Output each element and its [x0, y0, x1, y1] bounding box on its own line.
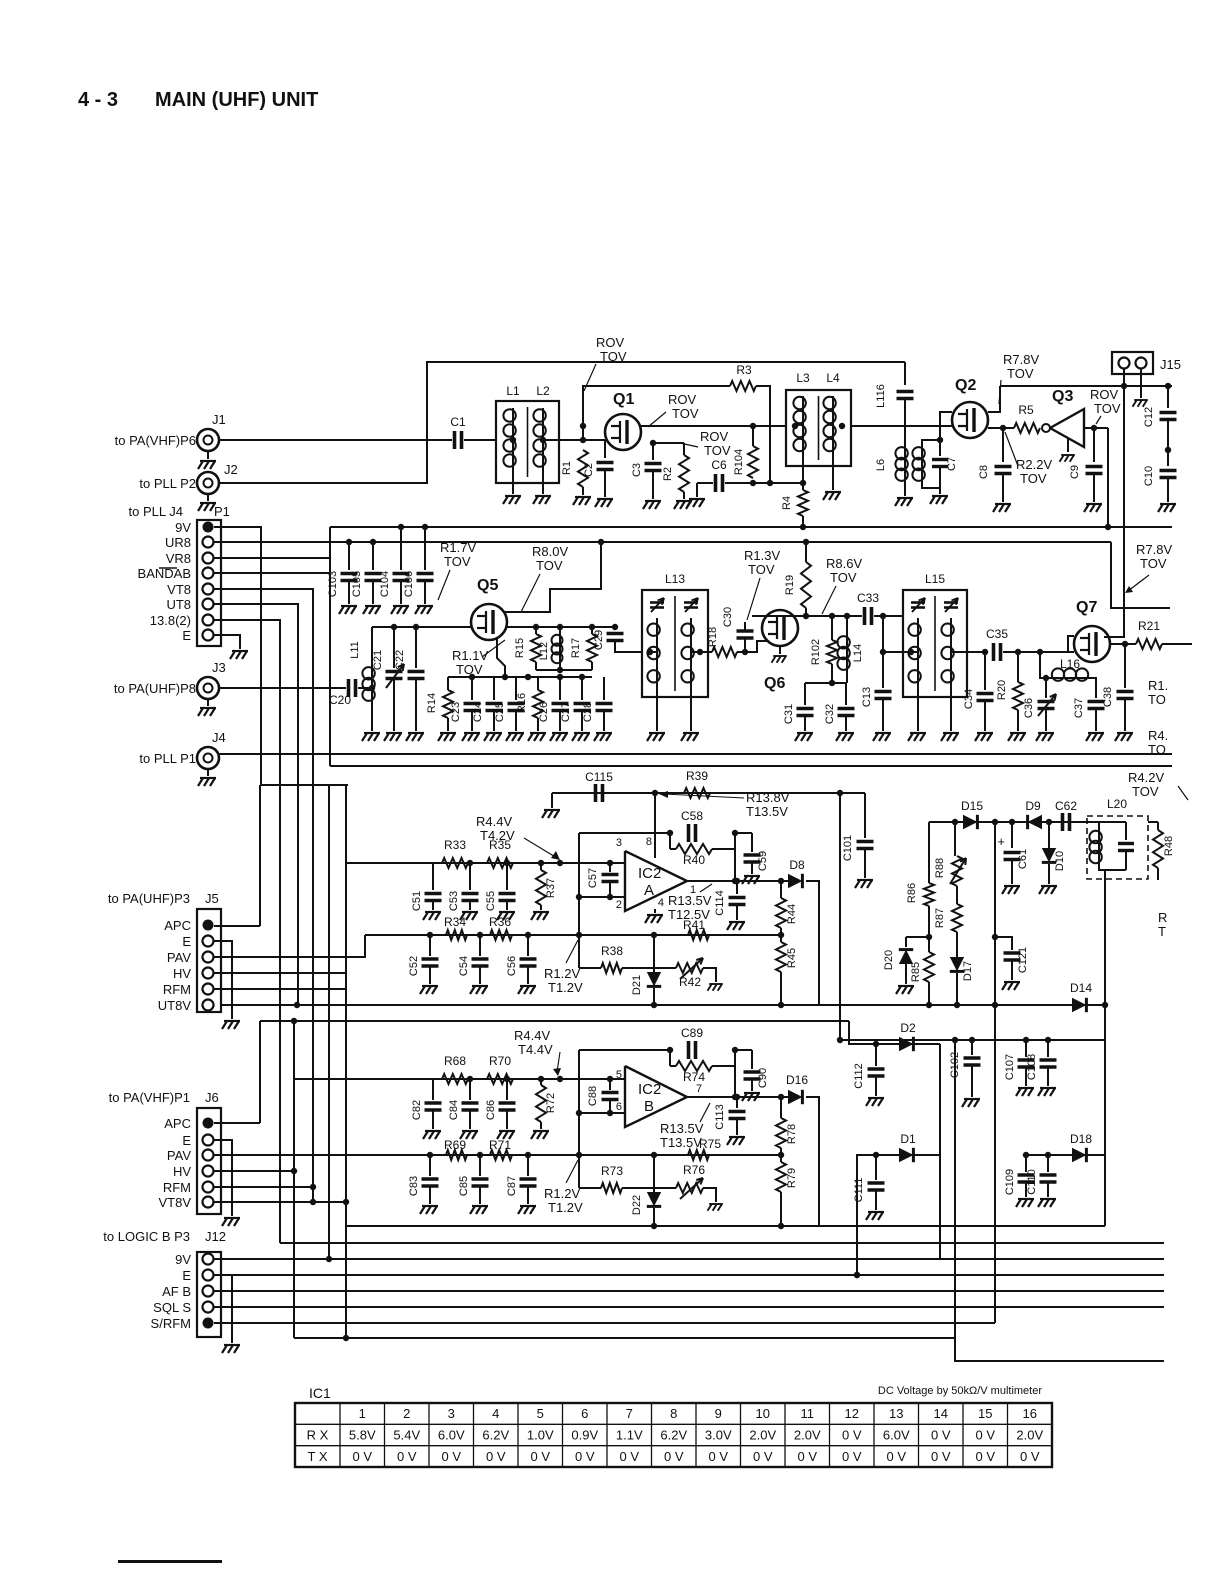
junction C27 top [579, 674, 585, 680]
ground C112 [866, 1098, 884, 1106]
svg-text:C115: C115 [585, 770, 613, 784]
svg-text:D15: D15 [961, 799, 983, 813]
wire L13a ground [656, 688, 658, 731]
wire L15a ground [917, 688, 919, 731]
svg-text:C52: C52 [408, 956, 420, 976]
op-amp IC2 B [625, 1066, 687, 1127]
wire R40 left [670, 848, 676, 850]
wire L6b top [922, 440, 940, 448]
svg-text:D21: D21 [631, 975, 643, 995]
svg-text:R70: R70 [489, 1054, 511, 1068]
ground C54 [470, 986, 488, 994]
wire APC J5 to stage3 [214, 925, 260, 927]
svg-text:R4.2V: R4.2V [1128, 770, 1164, 785]
capacitor C87 [527, 1155, 529, 1176]
callout R1.2V stage3 [566, 940, 578, 963]
svg-text:2: 2 [616, 899, 622, 911]
wire L4 to Q2 [851, 425, 952, 427]
pin J6 E [203, 1135, 214, 1146]
svg-text:C12: C12 [1143, 407, 1155, 427]
wire pin6 riser [578, 1050, 580, 1188]
ground J2 [198, 503, 216, 511]
svg-text:D2: D2 [900, 1021, 916, 1035]
svg-text:Q7: Q7 [1076, 599, 1097, 616]
bus BANDAB from P1 [214, 572, 330, 574]
junction L1 input [510, 437, 516, 443]
junction R104 bottom [750, 480, 756, 486]
svg-text:6.0V: 6.0V [883, 1428, 910, 1443]
callout R8.0V [521, 574, 540, 612]
callout R7.8V Q7 [1128, 575, 1149, 591]
junction Q1 top node [580, 423, 586, 429]
junction bus294 top [291, 1018, 297, 1024]
svg-text:UT8V: UT8V [158, 998, 192, 1013]
svg-text:C13: C13 [861, 687, 873, 707]
transformer L15 [903, 590, 967, 697]
svg-text:to PLL P2: to PLL P2 [139, 476, 196, 491]
capacitor C12 [1167, 386, 1169, 408]
bus UT8 from P1 down [214, 604, 298, 1005]
svg-text:R13.8V: R13.8V [746, 790, 790, 805]
junction C12 top [1165, 383, 1171, 389]
coil L2 [533, 408, 545, 468]
coil L14 [846, 616, 848, 637]
svg-text:T1.2V: T1.2V [548, 980, 583, 995]
ground C115 [542, 810, 560, 818]
svg-text:4: 4 [658, 897, 664, 909]
svg-text:E: E [182, 934, 191, 949]
wire C9 to ground [1093, 474, 1095, 502]
svg-text:R40: R40 [683, 853, 705, 867]
pin P1 VR8 [203, 553, 214, 564]
capacitor C31 body [797, 709, 814, 716]
pin J5 E [203, 936, 214, 947]
diode D16 [788, 1090, 802, 1104]
wire C112 D2 line [849, 1021, 940, 1044]
wire S/RFM riser to UT8V line [994, 1005, 996, 1323]
wire Q6 source stub [779, 646, 781, 654]
wire C2 top [604, 440, 606, 458]
bus line E logic [214, 1274, 1164, 1276]
svg-text:R16: R16 [516, 693, 528, 713]
junction C22 [413, 624, 419, 630]
junction C114 top [734, 878, 740, 884]
svg-text:R4.4V: R4.4V [476, 814, 512, 829]
wire C35 to Q7 [1003, 651, 1074, 653]
wire RFM J6 [214, 1186, 313, 1188]
trimmer resistor R76 [654, 1187, 676, 1189]
svg-text:5.4V: 5.4V [393, 1428, 420, 1443]
junction C30 [742, 649, 748, 655]
bus line SQLS [214, 1306, 1164, 1308]
svg-text:2.0V: 2.0V [1016, 1428, 1043, 1443]
junction C106 top [422, 524, 428, 530]
ground J1 [198, 461, 216, 469]
junction Q5 drain rail [598, 539, 604, 545]
transformer L1 L2 [496, 401, 559, 483]
wire C3 to ground [652, 471, 654, 499]
ground C52 [420, 986, 438, 994]
junction C111 top [873, 1152, 879, 1158]
capacitor C85 [479, 1155, 481, 1176]
capacitor C3 [645, 464, 662, 471]
svg-text:RFM: RFM [163, 982, 191, 997]
svg-text:C28: C28 [582, 702, 594, 722]
ground C53 [460, 912, 478, 920]
connector J12 [197, 1252, 221, 1337]
svg-text:APC: APC [164, 1116, 191, 1131]
wire Q2 source to R5 [988, 427, 1014, 429]
svg-text:C111: C111 [853, 1178, 865, 1203]
capacitor C88 [609, 1079, 611, 1090]
wire L3 to node [802, 452, 804, 483]
resistor R35 [487, 858, 513, 868]
svg-text:R45: R45 [786, 948, 798, 968]
electrolytic C61 [1011, 822, 1013, 848]
wire pin2 stub [579, 896, 625, 898]
triangle Q3 [1050, 409, 1084, 447]
svg-text:DC Voltage by 50kΩ/V multimete: DC Voltage by 50kΩ/V multimeter [878, 1385, 1042, 1397]
junction VT8V col346 [343, 1199, 349, 1205]
wire R1 to ground [582, 487, 584, 495]
pin J6 RFM [203, 1182, 214, 1193]
callout R4.4V [524, 838, 557, 858]
svg-text:TOV: TOV [1140, 556, 1167, 571]
svg-text:R2.2V: R2.2V [1016, 457, 1052, 472]
svg-text:L15: L15 [925, 572, 945, 586]
diode D22 [653, 1155, 655, 1194]
ground L13a [647, 733, 665, 741]
svg-text:TOV: TOV [456, 662, 483, 677]
capacitor C29 body [607, 634, 624, 641]
junction feedback right [732, 830, 738, 836]
resistor R69 [446, 1150, 467, 1160]
svg-text:L116: L116 [875, 384, 887, 408]
capacitor C111 body [868, 1183, 885, 1190]
ground C3 [643, 501, 661, 509]
wire Q5 output node [505, 626, 615, 628]
svg-text:C88: C88 [587, 1086, 599, 1106]
capacitor C61 body [1004, 853, 1021, 860]
capacitor C7 [939, 440, 941, 456]
ground C27 [572, 733, 590, 741]
ground J3 [198, 708, 216, 716]
svg-text:1.0V: 1.0V [527, 1428, 554, 1443]
junction R20 top [1015, 649, 1021, 655]
capacitor C59 [735, 832, 752, 834]
wire HV J5 [214, 972, 346, 974]
resistor R86 [928, 858, 930, 883]
junction R45 bottom [778, 1002, 784, 1008]
junction C86 top [504, 1076, 510, 1082]
svg-text:6: 6 [581, 1406, 588, 1421]
wire RFM J5 [214, 988, 346, 990]
svg-text:L13: L13 [665, 572, 685, 586]
svg-text:R42: R42 [679, 975, 701, 989]
resistor R79 [780, 1155, 782, 1162]
ground C28 [594, 733, 612, 741]
svg-text:R21: R21 [1138, 619, 1160, 633]
svg-text:VT8: VT8 [167, 582, 191, 597]
capacitor C53 [469, 863, 471, 890]
svg-text:C8: C8 [978, 465, 990, 479]
svg-text:7: 7 [626, 1406, 633, 1421]
junction R3 bottom [767, 480, 773, 486]
svg-text:R35: R35 [489, 838, 511, 852]
wire L116 down to L6 [904, 399, 906, 448]
ground J4 [198, 778, 216, 786]
wire R39 node down to stage4 [839, 793, 841, 1040]
svg-text:P1: P1 [214, 504, 230, 519]
svg-text:12: 12 [845, 1406, 859, 1421]
pin P1 E [203, 630, 214, 641]
capacitor C6 [716, 474, 723, 492]
pin J12 AFB [203, 1286, 214, 1297]
svg-text:R4: R4 [781, 496, 793, 510]
capacitor C55 [506, 863, 508, 890]
svg-text:E: E [182, 1133, 191, 1148]
junction R2.2V node [1000, 425, 1006, 431]
svg-text:C51: C51 [411, 891, 423, 911]
svg-text:C59: C59 [757, 851, 769, 871]
capacitor C20 [349, 679, 356, 697]
svg-text:C3: C3 [631, 463, 643, 477]
svg-text:C61: C61 [1017, 849, 1029, 869]
svg-text:9V: 9V [175, 1252, 191, 1267]
callout R1.3V [747, 578, 760, 620]
resistor R17 [591, 627, 593, 634]
jack J1 [197, 429, 219, 451]
coil L3 [793, 396, 805, 452]
svg-text:SQL S: SQL S [153, 1300, 191, 1315]
callout R4.2V [1178, 786, 1188, 800]
junction C85 top [477, 1152, 483, 1158]
junction L4 rail [839, 423, 845, 429]
bus APC J5 riser [259, 785, 261, 926]
ground J15 [1133, 400, 1148, 407]
junction C107 top [1023, 1037, 1029, 1043]
svg-text:TOV: TOV [1007, 366, 1034, 381]
ground C86 [497, 1131, 515, 1139]
pin J12 SQLS [203, 1302, 214, 1313]
svg-text:C106: C106 [403, 571, 415, 597]
resistor R70 [487, 1074, 513, 1084]
capacitor C27 [581, 677, 583, 700]
svg-text:2.0V: 2.0V [794, 1428, 821, 1443]
trimmer capacitor C21 [393, 627, 395, 668]
resistor R36 [490, 930, 512, 940]
svg-text:C2: C2 [583, 463, 595, 477]
wire J4 ground stub [207, 769, 209, 776]
ground C104 [391, 606, 409, 614]
wire J2 top loop [219, 362, 902, 483]
ground C103 [339, 606, 357, 614]
capacitor C57 [609, 863, 611, 872]
svg-text:T: T [1158, 924, 1166, 939]
bus line 1361 wrap [955, 1338, 1164, 1361]
wire APC J6 riser [259, 1021, 261, 1123]
svg-text:+: + [997, 834, 1005, 849]
wire Q6 drain node [752, 615, 862, 617]
junction C108 top [1045, 1037, 1051, 1043]
svg-text:R102: R102 [810, 639, 822, 665]
bus column 329 [328, 785, 330, 1259]
wire L11 to ground [371, 700, 373, 731]
wire Q7 drain up [1104, 386, 1124, 637]
svg-text:11: 11 [801, 1406, 815, 1421]
wire D1 riser [857, 1155, 876, 1275]
svg-text:0 V: 0 V [931, 1428, 951, 1443]
junction L13a tap [647, 649, 653, 655]
wire stage4 bottom node [346, 1225, 1105, 1227]
svg-text:TOV: TOV [1094, 401, 1121, 416]
wire L15b ground [950, 688, 952, 731]
bus column 346 [345, 785, 347, 1338]
svg-text:L3: L3 [796, 371, 810, 385]
svg-text:C104: C104 [379, 571, 391, 597]
wire C1 to L1 box [464, 439, 496, 441]
trimmer cap L13b [684, 603, 698, 608]
svg-text:R19: R19 [784, 575, 796, 595]
wire D1 line [876, 1154, 940, 1156]
svg-text:C110: C110 [1026, 1169, 1038, 1194]
wire Q7 gate [1068, 636, 1074, 652]
diode D10 [1048, 822, 1050, 850]
wire pin2 riser [578, 833, 580, 968]
wire L6b bottom [922, 480, 940, 488]
junction x955 top [952, 1037, 958, 1043]
svg-text:R3: R3 [736, 363, 752, 377]
ground C106 [415, 606, 433, 614]
coil L6 winding2 [912, 447, 924, 481]
junction R78 top [778, 1094, 784, 1100]
junction C26 top [557, 674, 563, 680]
ground C111 [866, 1212, 884, 1220]
junction C53 top [467, 860, 473, 866]
svg-text:R33: R33 [444, 838, 466, 852]
junction C121 column top [992, 819, 998, 825]
svg-text:0 V: 0 V [975, 1449, 995, 1464]
capacitor C113 body [729, 1112, 746, 1119]
svg-text:E: E [182, 628, 191, 643]
ground Q6 [772, 656, 787, 663]
junction col346 end [343, 1335, 349, 1341]
ground L15b [941, 733, 959, 741]
diode D8 [788, 874, 802, 888]
wire Q5 drain staircase to UR8 rail [505, 542, 601, 612]
junction R39 right [837, 790, 843, 796]
capacitor C105 [372, 542, 374, 570]
wire to Q2 gate2 [940, 412, 952, 440]
bus BANDAB vertical [329, 558, 331, 766]
ground C34 [975, 733, 993, 741]
junction C88 bottom [607, 1110, 613, 1116]
junction C61 top [1009, 819, 1015, 825]
callout ROV to drain [648, 412, 666, 427]
svg-text:R1.1V: R1.1V [452, 648, 488, 663]
coil L13b [681, 618, 693, 688]
capacitor C35 body [994, 643, 1001, 661]
junction L3 rail [792, 423, 798, 429]
connector J6 [197, 1108, 221, 1214]
resistor R74 [676, 1061, 712, 1071]
ground C85 [470, 1206, 488, 1214]
diode D17 [950, 957, 964, 971]
junction R102 top [829, 613, 835, 619]
ground R42 [708, 984, 723, 991]
svg-text:L4: L4 [826, 371, 840, 385]
svg-text:R2: R2 [662, 467, 674, 481]
pin J6 APC [203, 1118, 214, 1129]
ground R37 [531, 912, 549, 920]
wire L15b tap out [951, 651, 985, 653]
svg-text:C107: C107 [1004, 1054, 1016, 1080]
ground C2 [595, 499, 613, 507]
svg-text:R14: R14 [426, 693, 438, 713]
junction D21 bottom [651, 1002, 657, 1008]
bus line AFB [214, 1290, 1164, 1292]
capacitor C114 body [729, 898, 746, 905]
capacitor C36 body [1038, 702, 1055, 709]
svg-text:B: B [644, 1098, 654, 1115]
junction C113 top [734, 1094, 740, 1100]
junction C13 tap [880, 649, 886, 655]
inverter Q3 [1042, 424, 1050, 432]
svg-text:9: 9 [715, 1406, 722, 1421]
junction C36 top [1043, 675, 1049, 681]
svg-text:3: 3 [448, 1406, 455, 1421]
ground C22 [406, 733, 424, 741]
junction C13 top [880, 613, 886, 619]
ground L15a [908, 733, 926, 741]
diode D20 [906, 936, 929, 938]
stage2 bottom border [330, 765, 1172, 767]
resistor R68 [442, 1074, 468, 1084]
junction R37 top [538, 860, 544, 866]
pin J6 HV [203, 1166, 214, 1177]
svg-text:3.0V: 3.0V [705, 1428, 732, 1443]
junction pin2 riser [576, 932, 582, 938]
resistor R40 [676, 844, 712, 854]
trimmer resistor R88 [952, 856, 962, 886]
wire R40 right [712, 848, 735, 850]
svg-text:R17: R17 [570, 638, 582, 658]
junction rail VR8 right [1105, 524, 1111, 530]
junction UT8V bus [294, 1002, 300, 1008]
junction L12 top [557, 624, 563, 630]
junction C55 top [504, 860, 510, 866]
junction pin8 feed [652, 790, 658, 796]
svg-text:0 V: 0 V [619, 1449, 639, 1464]
wire J12 E to ground [214, 1275, 232, 1343]
svg-text:ROV: ROV [700, 429, 729, 444]
svg-text:IC2: IC2 [638, 865, 661, 882]
ground C108 [1038, 1088, 1056, 1096]
wire J5 E to ground [214, 941, 232, 1019]
svg-text:R39: R39 [686, 769, 708, 783]
bus column 294 [293, 1021, 295, 1338]
junction C54 top [477, 932, 483, 938]
wire J2 ground stub [207, 494, 209, 501]
svg-text:0 V: 0 V [931, 1449, 951, 1464]
wire D15 rail [929, 821, 1087, 823]
svg-text:to PLL J4: to PLL J4 [129, 504, 183, 519]
svg-text:T13.5V: T13.5V [660, 1135, 702, 1150]
wire R88 top leg [954, 822, 956, 856]
capacitor C88 body [602, 1093, 619, 1100]
svg-text:C103: C103 [327, 571, 339, 597]
resistor R18 [708, 651, 712, 653]
